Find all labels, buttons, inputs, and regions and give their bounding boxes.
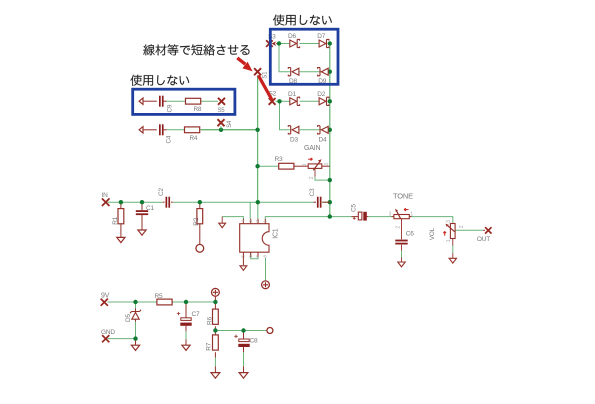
svg-text:S5: S5 [218,108,226,114]
diode D1 [290,98,297,105]
wire [300,43,320,45]
ground [138,230,146,235]
svg-text:C9: C9 [166,104,173,112]
solder jumper S2 [269,98,276,105]
ground GND connector [102,335,109,342]
svg-text:C7: C7 [192,311,200,318]
wire output net [265,217,351,219]
wire IC pin3 feed [257,202,259,219]
wire C6 to ground [401,245,403,251]
wire C8 to ground [243,347,245,352]
resistor R3 [278,165,280,167]
capacitor C7 [181,318,191,321]
supply VCC circle at IC pin8 [262,281,270,289]
capacitor C1 [136,210,148,212]
capacitor C4 [159,124,161,135]
wire C9 to R8 [164,100,167,102]
svg-text:GAIN: GAIN [304,145,320,152]
ground [398,262,405,267]
wire box1 connector [279,44,290,72]
wire [300,129,330,131]
potentiometer GAIN [308,164,322,169]
junction at 120.9,202.2 [119,200,123,204]
ground [117,237,125,242]
svg-text:D5: D5 [125,314,132,322]
svg-text:S1: S1 [263,71,269,79]
svg-text:C1: C1 [146,205,154,212]
svg-text:D6: D6 [288,33,296,40]
resistor R2 [197,209,203,224]
wire main input net [108,201,163,203]
diode D3 [292,126,299,133]
svg-text:D1: D1 [288,91,296,98]
junction at 279.0,43.5 [277,41,281,45]
junction at 215.4,302.0 [213,300,217,304]
svg-text:OUT: OUT [477,236,490,243]
svg-text:1: 1 [410,211,413,217]
wire R7 to ground [214,352,216,357]
node VB circle power [267,328,273,334]
svg-text:3: 3 [389,211,392,217]
svg-text:D7: D7 [317,33,325,40]
junction at 329.8,43.5 [328,41,332,45]
wire diode row 3 [276,100,290,102]
svg-text:VOL: VOL [429,227,436,240]
diode D4 [321,126,328,133]
resistor R7 [213,335,219,350]
svg-text:R2: R2 [193,217,200,225]
junction at 257.6,166.2 [255,164,259,168]
output OUT connector [485,227,491,233]
ground [239,373,248,379]
resistor R1 [118,209,124,224]
wire R6 top stub [214,302,216,309]
wire C1 stub [141,202,143,210]
blue frame top box [270,29,338,84]
wire R8 to S5 [201,100,218,102]
svg-text:2: 2 [395,226,401,229]
wire S4 row to bus [201,129,258,131]
ground [449,258,456,263]
wire VOL wiper to OUT [455,229,483,231]
wire supply sym stub [214,296,216,302]
note do-not-use left [130,75,189,86]
capacitor C9 [159,96,161,107]
junction at 215.4,330.5 [213,328,217,332]
wire [300,100,320,102]
wire R4 to S4 node [201,129,258,131]
note do-not-use top [273,15,332,26]
svg-text:D4: D4 [319,137,327,144]
svg-text:C2: C2 [158,188,165,196]
junction at 142.0,202.2 [140,200,144,204]
wire R2 to VB circle [199,224,201,245]
svg-text:GND: GND [101,329,115,336]
wire VOL to ground [452,239,454,246]
ground [131,345,139,350]
svg-text:3: 3 [446,220,452,223]
blue frame left box [133,89,235,114]
svg-text:R5: R5 [155,293,163,300]
svg-text:IN: IN [102,192,109,199]
solder jumper S4 [218,119,225,126]
resistor R8 [186,98,201,104]
wire C7 to ground [185,326,187,331]
capacitor C5 [358,212,362,220]
svg-text:3: 3 [324,163,330,166]
supply symbol +V [212,288,220,296]
wire rows3-4 connector [280,101,290,130]
wire IC pins 6-7 jumper [251,253,258,259]
wire C4 to R4 [164,129,167,131]
supply 9V connector [101,299,108,306]
svg-text:C6: C6 [406,230,414,237]
svg-text:TONE: TONE [393,192,413,201]
diode D2 [319,98,326,105]
svg-text:D3: D3 [290,137,298,144]
wire IC pin1 ground [222,217,243,219]
wire R7 top stub [214,331,216,335]
wire TONE wiper to C6 [401,219,403,240]
ground [240,266,247,271]
svg-text:S4: S4 [227,120,233,128]
wire arrow lead row1 [143,100,157,102]
wire [173,201,314,203]
junction at 329.8,202.2 [328,200,332,204]
diode D6 [290,40,297,47]
wire GND rail [108,338,136,340]
pinhead arrow row1 [139,98,143,104]
ground [211,373,220,379]
junction at 329.8,101.3 [328,99,332,103]
wire C1 to ground [141,215,143,230]
junction at 135.5,338.6 [133,336,137,340]
svg-text:R7: R7 [206,342,213,350]
svg-text:IC1: IC1 [273,228,280,239]
wire [172,301,215,303]
op-amp IC1 [240,224,269,253]
ground [219,223,226,228]
wire R1 stub [120,202,122,208]
wire pot wiper to bus [314,168,316,176]
wire C8 top stub [243,331,245,339]
svg-text:C3: C3 [309,188,316,196]
junction at 135.5,302.0 [133,300,137,304]
wire R6 bottom stub [214,326,216,330]
svg-text:D2: D2 [317,91,325,98]
svg-text:C8: C8 [250,338,258,345]
diode D7 [319,40,326,47]
svg-text:R3: R3 [275,156,283,163]
input IN connector [102,198,110,206]
svg-text:C4: C4 [166,135,173,143]
solder jumper S3 [266,40,273,47]
wire TONE to VOL [412,217,453,224]
annotation short line [258,75,272,100]
diode D8 [292,68,299,75]
wire arrow lead row2 [143,129,157,131]
wire IC pin5 to ground [242,252,244,265]
note short with wire [143,44,249,55]
junction at 257.8,202.2 [256,200,260,204]
wire right bus vertical [329,44,331,217]
wire diode row 1 [277,43,290,45]
wire C5 to TONE [368,216,391,218]
svg-text:R6: R6 [206,317,213,325]
wire [322,201,330,203]
wire C7 stub [185,302,187,318]
svg-text:R1: R1 [112,216,119,224]
svg-text:1: 1 [446,239,452,242]
wire VB mid rail [215,330,267,332]
pinhead arrow row2 [139,127,143,133]
junction at 221.0,129.8 [219,128,223,132]
wire 9V rail [108,301,157,303]
svg-text:1: 1 [302,163,308,166]
annotation arrow [237,58,245,64]
diode D5 zener [132,312,139,319]
junction at 329.8,180.1 [328,178,332,182]
svg-text:C5: C5 [350,204,357,212]
wire feedback R3 row [258,165,279,167]
resistor R4 [185,127,200,133]
wire R3 to pot [294,165,308,167]
junction at 257.6,129.8 [255,128,259,132]
svg-text:9V: 9V [101,293,110,300]
potentiometer VOL [450,224,455,239]
wire GND to ground [135,339,137,346]
svg-text:2: 2 [459,225,465,228]
junction at 279.5,101.3 [277,99,281,103]
junction at 243.5,330.5 [241,328,245,332]
capacitor C6 [395,240,407,242]
resistor R6 [213,309,219,324]
resistor R5 [157,299,172,305]
capacitor C3 [317,197,319,208]
capacitor C2 [166,197,168,208]
junction at 329.8,216.6 [328,214,332,218]
junction at 329.8,71.7 [328,70,332,74]
junction at 186.0,302.0 [184,300,188,304]
wire R2 stub [199,202,201,208]
wire R1 to ground [120,224,122,238]
diode D9 [321,68,328,75]
potentiometer TONE [394,215,409,219]
wire left bus vertical [257,75,259,202]
svg-text:R8: R8 [194,106,202,113]
junction at 199.8,202.2 [198,200,202,204]
svg-text:R4: R4 [190,135,198,142]
junction at 329.8,129.8 [328,128,332,132]
wire [300,71,330,73]
wire D5 bottom [135,319,137,322]
capacitor C8 [239,339,249,342]
node VB circle at R2 [196,244,204,252]
wire D5 top stub [135,302,137,309]
wire IC pin2 feed [249,202,251,219]
solder jumper S5 [218,98,225,105]
solder jumper S1 [254,68,261,75]
svg-text:2: 2 [309,176,315,179]
wire IC pin8 supply [265,258,267,281]
ground [182,345,190,350]
